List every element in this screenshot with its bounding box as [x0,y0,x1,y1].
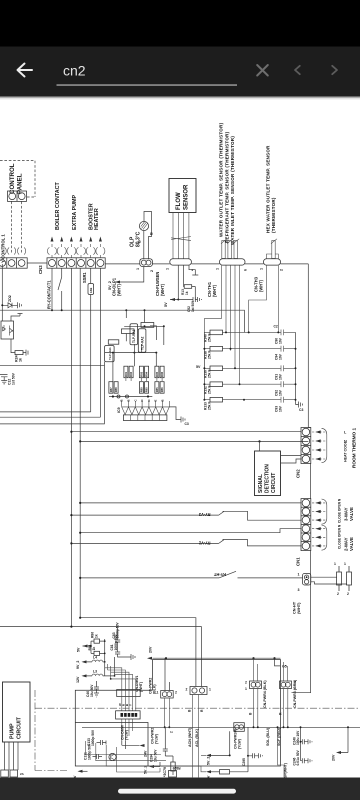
svg-text:(WHT): (WHT) [296,602,301,614]
svg-text:1k: 1k [185,291,189,295]
5V_2 feed at CN-OLP1 [115,267,144,282]
close (x) icon [257,65,268,76]
nested corridor wire 4 [117,747,206,772]
5V arrow mid low [206,770,211,773]
nested corridor wire 3 [106,745,206,772]
CN-PWR1 wires below [165,698,170,727]
ground C240 [308,739,312,744]
R/C array left column bus [203,332,205,400]
CN3 field wires with loops and arrows [48,244,105,258]
supply line A y617.7 [80,618,196,687]
svg-text:9V_2: 9V_2 [76,661,80,669]
svg-text:CONTROL: CONTROL [9,163,16,194]
svg-text:CLOSE OPEN N: CLOSE OPEN N [338,498,342,523]
svg-text:5V: 5V [196,365,201,369]
CN-PWR2 connector [190,687,207,695]
opto TLP-RA2 [138,329,146,353]
svg-text:1: 1 [245,687,247,691]
svg-text:1: 1 [209,688,211,692]
svg-text:C295: C295 [242,758,246,766]
CN-OLP1 connector [140,259,153,267]
R/C array row 4 [204,381,296,396]
svg-text:D: D [140,399,144,401]
opto collector wire [11,314,23,322]
svg-text:24V: 24V [144,750,148,757]
right bus through connectors down to bottom [292,428,311,693]
svg-text:DETECTION: DETECTION [265,464,271,493]
svg-text:16V: 16V [279,373,283,380]
toolbar bottom shadow [0,97,360,99]
svg-text:RY-V2: RY-V2 [198,541,210,546]
CN3 pin3 long wire [70,268,72,626]
svg-text:R829: R829 [172,766,180,770]
driver resistor block A2 [139,366,148,378]
svg-text:RY-CONTACT1: RY-CONTACT1 [47,280,52,309]
chevron next icon [332,66,337,74]
wire to CN1 pin4 [80,529,301,533]
CN1 field stubs [312,503,326,546]
thermistor TH1-c [233,239,239,259]
optocoupler PC3 [1,321,14,339]
opto emitter to R24 [11,339,15,353]
svg-text:B: B [150,232,154,235]
svg-text:5V_2: 5V_2 [144,766,148,774]
svg-text:2: 2 [175,691,177,695]
resistor block wires [126,378,162,381]
CN-FLWSEN connector bar [170,259,192,265]
svg-text:FLOW: FLOW [176,192,182,210]
svg-text:HEAT COOL: HEAT COOL [344,440,348,462]
svg-text:C2: C2 [274,325,278,329]
ground C3 at IC9 [169,407,185,423]
svg-text:SOL (BLU): SOL (BLU) [266,727,270,746]
heater contact block 2 [347,566,352,591]
svg-text:2: 2 [245,681,247,685]
R/C array feed wires from CN-TH1 [222,265,240,385]
RY-V2 relay line [71,540,301,546]
svg-text:(WHT): (WHT) [259,279,264,292]
svg-text:(YLW): (YLW) [155,734,159,744]
cable loop pin C [18,248,26,255]
svg-text:1: 1 [216,268,220,270]
svg-text:25k F: 25k F [208,334,212,342]
svg-text:B: B [120,399,124,401]
R86/R81 output node [100,639,105,662]
ground C81 [131,654,135,660]
svg-text:*3C79: *3C79 [163,767,167,777]
svg-text:5V: 5V [77,647,81,652]
svg-text:VALVE: VALVE [349,507,354,521]
svg-text:2-WAY: 2-WAY [344,537,349,551]
bottom big box [75,660,280,767]
svg-text:R94: R94 [145,371,149,376]
CN-PWR1 wires [165,658,170,690]
svg-text:(YLW): (YLW) [238,739,242,749]
left connector strip [0,258,27,268]
CN3 pin5 wire through SSR [90,268,92,412]
svg-text:B: B [161,399,165,401]
ground C246 [308,758,312,763]
CN3 pin1 wire [51,268,53,310]
harness connector upper [117,690,141,697]
TH3 wire to pin2 [267,254,279,259]
svg-text:R93: R93 [139,371,143,376]
TH3 pin wires down [249,265,279,332]
dash-dot board border bottom [35,770,68,772]
svg-text:WATER INLET TEMP. SENSOR (THER: WATER INLET TEMP. SENSOR (THERMISTOR) [230,136,235,245]
svg-text:(WHT): (WHT) [139,682,143,692]
heater contact wires right [311,577,347,584]
up arrows above CN3 [51,237,102,242]
harness wire color labels [118,703,133,706]
svg-text:C: C [133,399,137,401]
svg-text:1k: 1k [94,634,98,638]
signal box feed stub [259,441,261,451]
svg-text:1: 1 [298,573,300,577]
svg-text:16V: 16V [279,389,283,396]
status bar [0,0,360,47]
svg-text:HEX WATER OUTLET TEMP. SENSOR: HEX WATER OUTLET TEMP. SENSOR [265,145,270,233]
wire y310 corner into TLP cluster [126,310,144,322]
svg-text:20V: 20V [332,754,336,761]
svg-text:CIRCUIT: CIRCUIT [271,473,277,493]
OLP thermal cutout symbol [139,221,148,230]
svg-text:R89: R89 [139,387,143,392]
CN3 pin4 long wire [79,268,81,618]
relay drive line 2 [0,416,100,418]
3C79 service box [169,771,177,778]
main rail [105,263,308,265]
right bus vertical [307,264,309,428]
harness bundle wires [105,664,136,690]
R/C array right bus [295,332,297,404]
svg-text:5V_2: 5V_2 [207,757,211,765]
transistor bottom cluster [109,753,116,760]
svg-text:EXTRA PUMP: EXTRA PUMP [72,194,78,230]
IC9 bottom pad row [123,415,166,421]
svg-text:Y-CONTROL 1: Y-CONTROL 1 [1,234,6,263]
svg-text:RY-HT: RY-HT [213,572,226,577]
R/C array junction dots [225,331,227,333]
svg-text:5V: 5V [164,302,168,307]
svg-text:12V: 12V [76,676,80,683]
svg-text:C3: C3 [185,422,189,426]
svg-text:10u 50V: 10u 50V [153,749,157,762]
PUMP CIRCUIT box [3,682,31,742]
SSR1 body [88,284,94,295]
svg-text:R90: R90 [145,387,149,392]
svg-text:(WHT): (WHT) [212,284,217,297]
svg-text:BOILER CONTACT: BOILER CONTACT [55,181,61,230]
R/C array row 2 [204,346,296,360]
ground R24 [23,350,28,356]
signal box outputs to CN2 [281,456,302,464]
svg-text:SENSOR: SENSOR [184,184,190,210]
CN3 connector strip [47,258,105,268]
bus line y365.5 [0,365,105,367]
control panel dashed box [0,161,35,198]
opto TLP-HA1 [105,346,115,362]
svg-text:25k F: 25k F [208,351,212,359]
5V arrow bottom left [83,641,92,653]
svg-text:R88: R88 [114,387,118,392]
svg-text:1000p 50V: 1000p 50V [114,634,118,651]
svg-text:(YLW): (YLW) [124,730,128,740]
toolbar [0,47,360,97]
svg-text:CN2: CN2 [296,469,301,478]
resistor R830 [220,770,230,774]
svg-text:1: 1 [260,268,264,270]
resistor R (horiz) top left [122,329,135,334]
svg-text:2: 2 [347,592,349,596]
svg-text:2: 2 [169,731,173,733]
junction dots y310 [51,309,53,311]
heater contact block 1 [337,566,342,591]
left connector rail link [27,262,47,264]
driver resistor block B2 [139,382,148,394]
svg-text:L4: L4 [93,656,97,660]
CN-HT connector [303,574,311,586]
flow sensor cable [171,213,191,259]
svg-text:6: 6 [244,269,248,271]
dash-dot board border vertical [34,690,36,771]
bottom bus wires [122,741,140,749]
svg-text:ZD2: ZD2 [8,295,12,302]
svg-text:R91: R91 [124,371,128,376]
CN-PWR4 connector [250,681,262,689]
flow sensor supply T [189,265,198,275]
svg-text:CN1: CN1 [296,557,301,566]
svg-text:TLP-RA2: TLP-RA2 [140,336,144,350]
svg-text:1: 1 [166,268,170,270]
svg-text:1k: 1k [92,647,96,651]
resistor R24 [15,351,23,355]
cable loop pin A [0,248,6,255]
svg-text:CLOSE OPEN N: CLOSE OPEN N [338,524,342,549]
svg-text:R92: R92 [129,371,133,376]
svg-text:16V: 16V [279,337,283,344]
bus y396.5 with pads [109,396,152,398]
pump small terminals [1,770,9,777]
svg-text:CN-PWR4 (BLK): CN-PWR4 (BLK) [263,680,267,708]
svg-text:(WHT): (WHT) [117,283,122,296]
svg-text:CN-PWR3 (GRN): CN-PWR3 (GRN) [293,679,297,708]
svg-text:WATER OUTLET TEMP. SENSOR (THE: WATER OUTLET TEMP. SENSOR (THERMISTOR) [219,122,224,237]
FLOW SENSOR box [169,179,196,213]
flow sensor filter cap C92 [178,297,197,302]
20V arrow bottom right [336,751,341,754]
OLP wiring [144,212,152,260]
svg-text:VALVE: VALVE [349,537,354,551]
CN1 field brackets [322,499,327,550]
9V_2 arrow [82,660,87,663]
line to CN2 pin1 [71,431,301,433]
svg-text:1: 1 [334,562,336,566]
svg-text:(BLK): (BLK) [153,684,157,694]
svg-text:G5: G5 [282,665,287,669]
svg-text:1000p 50V: 1000p 50V [87,743,91,760]
ground flow sensor [198,297,202,302]
12V arrow [82,674,87,677]
svg-text:TLP-RA1: TLP-RA1 [132,329,136,343]
CN-TH3 connector bar [264,259,281,265]
wire rail to opto [1,264,3,321]
resistor R829 [171,762,175,771]
svg-text:B: B [138,240,142,243]
svg-text:C3: C3 [299,408,303,412]
20V rail [153,657,281,659]
RY-CONTACT1 contact blade on pin2 [58,268,62,310]
thermistor TH1-a [221,239,227,259]
svg-text:25k F: 25k F [208,370,212,378]
harness wires into box [122,719,133,741]
dashed wire control panel pin1 [11,202,13,254]
relay drive line 1 [0,411,91,413]
svg-text:1st 50V: 1st 50V [12,372,16,385]
svg-text:R87: R87 [109,387,113,392]
SP wire [278,727,285,777]
svg-text:(WHT): (WHT) [160,283,165,296]
svg-text:ROOM THERMO 1: ROOM THERMO 1 [352,428,357,468]
G5 stub [275,658,281,666]
supply line B y627 [0,627,201,687]
capacitor C12 [0,375,8,384]
ground C3 right bus [296,402,303,408]
cable loop pin B [8,248,16,255]
svg-text:2: 2 [280,269,284,271]
control panel connector [8,191,27,201]
resistor TLP-HA1 input [108,340,119,344]
CN-PWR3 connector [280,681,292,689]
pump circuit wires down [5,742,19,770]
driver resistor block A3 [155,366,164,378]
thermistor TH3 [271,239,277,259]
svg-text:5V_2: 5V_2 [108,281,112,290]
svg-text:1000p 50V: 1000p 50V [91,729,95,746]
svg-text:1: 1 [344,562,346,566]
24V label [140,744,145,747]
svg-text:3: 3 [298,588,300,592]
CN-PWR4 wires below [254,689,258,728]
svg-text:R86: R86 [160,387,164,392]
svg-text:R85: R85 [155,387,159,392]
chevron prev icon [295,66,300,74]
5V feed flow sensor [170,265,178,300]
flow sensor pulldown resistor R13 [183,265,186,287]
wire to CN1 pin1 [80,502,301,504]
svg-text:ACL (BLK): ACL (BLK) [195,728,199,747]
svg-text:B: B [127,399,131,401]
relay drive line 3 [0,366,104,424]
CN-PWRSW connector [234,723,245,732]
svg-text:TLP-HA1: TLP-HA1 [108,347,112,360]
20V arrow [147,657,152,660]
resistor R (horiz) top right [141,323,154,328]
CN1 connector [301,499,311,551]
driver resistor block B1 [109,382,118,394]
driver resistor block B3 [155,382,164,394]
svg-text:E: E [154,400,158,402]
svg-text:IC9: IC9 [117,407,121,413]
svg-text:RY-V3: RY-V3 [198,512,210,517]
inner box cluster [75,723,148,767]
svg-text:80.3°C: 80.3°C [136,231,142,247]
ground ZD2 [18,302,22,308]
svg-text:CN3: CN3 [38,265,43,274]
svg-text:L3: L3 [93,670,97,674]
svg-text:2: 2 [150,270,154,272]
CN-PWR3 wires below [284,689,288,728]
harness connector lower [116,711,141,719]
svg-text:D: D [147,399,151,401]
svg-text:1: 1 [136,268,140,270]
search field underline [57,84,238,86]
thermistor TH1-b [227,239,233,259]
svg-text:1k: 1k [19,358,23,362]
IC9 transistor array zigzag [122,401,170,415]
opto TLP-RA1 [130,324,138,345]
CN-PWR2 wires below (AC mains) [193,695,199,778]
bottom navigation bar [0,778,360,800]
svg-text:3-WAY: 3-WAY [344,507,349,521]
svg-text:SSR1: SSR1 [82,272,87,283]
TH1 bus jog [204,319,221,332]
resistor block texts [109,371,164,392]
nav pill [118,789,236,794]
line to signal detection [80,440,308,442]
CN2 field stubs [312,432,326,459]
svg-text:SP(WHT): SP(WHT) [284,763,288,778]
svg-text:HEATER: HEATER [94,208,100,230]
CN-PWR3 wires top [284,662,288,681]
svg-text:(THERMISTOR): (THERMISTOR) [271,197,276,233]
svg-text:0.01u 50V: 0.01u 50V [296,749,300,765]
svg-text:100u 16V: 100u 16V [296,730,300,745]
bottom long rail y727.3 [82,726,360,728]
svg-text:cn2: cn2 [63,63,86,79]
dashed wire control panel pin2 [21,202,23,254]
5V arrows in box [78,770,83,773]
nested corridor wire 1 [85,741,161,755]
R/C array row 5 [204,397,296,412]
svg-text:PUMP: PUMP [10,723,16,739]
CN3 pin6 wire [99,268,101,417]
IC9 pin name row [120,399,165,401]
svg-text:14B: 14B [89,288,93,293]
ground C295 [259,753,263,758]
bus y352.5 [105,352,157,354]
nested corridor wire 2 [96,743,166,761]
CN2 field bracket [322,428,327,462]
svg-text:2: 2 [337,592,339,596]
harness interconnect wires [122,697,136,711]
CN2 connector [301,428,311,464]
svg-text:16V: 16V [279,405,283,412]
svg-text:25k F: 25k F [208,402,212,410]
ground C40 [94,693,99,697]
RY-HT relay line [80,571,302,578]
svg-text:ACN (WHT): ACN (WHT) [188,727,192,747]
svg-text:REFRIGERANT TEMP. SENSOR (THER: REFRIGERANT TEMP. SENSOR (THERMISTOR) [224,131,229,243]
svg-text:20V: 20V [149,646,153,653]
svg-text:CIRCUIT: CIRCUIT [17,716,23,739]
svg-text:R96: R96 [160,371,164,376]
5V_2 arrow mid [206,754,211,757]
dash-dot board border horizontal [35,707,360,709]
svg-text:25k F: 25k F [208,386,212,394]
R/C array row 1 [204,330,296,345]
SIGNAL DETECTION CIRCUIT box [255,451,281,496]
